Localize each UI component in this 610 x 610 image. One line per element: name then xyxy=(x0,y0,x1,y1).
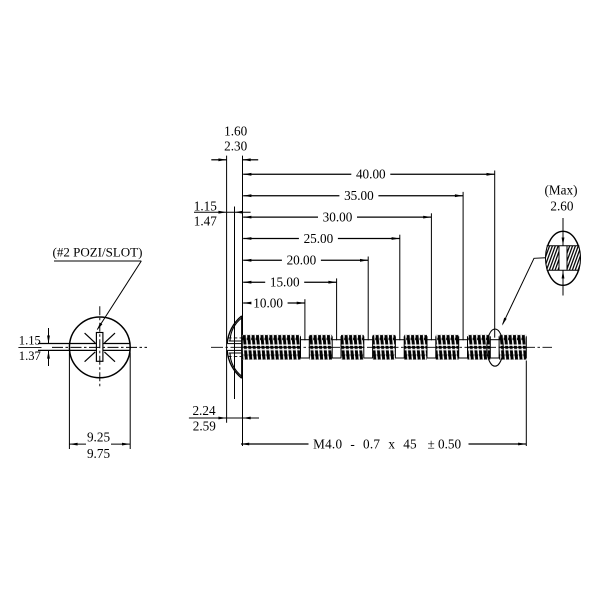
svg-text:1.15: 1.15 xyxy=(19,334,41,348)
svg-text:20.00: 20.00 xyxy=(287,253,317,268)
svg-text:(#2 POZI/SLOT): (#2 POZI/SLOT) xyxy=(53,245,143,260)
svg-text:35.00: 35.00 xyxy=(344,188,374,203)
svg-text:1.15: 1.15 xyxy=(194,199,217,214)
svg-text:40.00: 40.00 xyxy=(356,167,386,182)
svg-text:2.60: 2.60 xyxy=(550,199,573,214)
svg-text:10.00: 10.00 xyxy=(253,295,283,310)
svg-text:(Max): (Max) xyxy=(545,183,578,198)
svg-text:1.47: 1.47 xyxy=(194,213,217,228)
svg-text:15.00: 15.00 xyxy=(270,275,300,290)
svg-text:2.24: 2.24 xyxy=(192,403,215,418)
svg-text:1.60: 1.60 xyxy=(224,123,247,138)
svg-text:2.59: 2.59 xyxy=(193,419,216,434)
svg-text:9.75: 9.75 xyxy=(87,446,110,461)
svg-text:2.30: 2.30 xyxy=(224,139,247,154)
svg-text:M4.0 - 0.7 x 45: M4.0 - 0.7 x 45 xyxy=(313,437,417,452)
svg-text:± 0.50: ± 0.50 xyxy=(427,437,461,452)
svg-text:25.00: 25.00 xyxy=(304,231,334,246)
svg-text:30.00: 30.00 xyxy=(323,210,353,225)
svg-text:1.37: 1.37 xyxy=(19,349,41,363)
svg-text:9.25: 9.25 xyxy=(87,430,110,445)
